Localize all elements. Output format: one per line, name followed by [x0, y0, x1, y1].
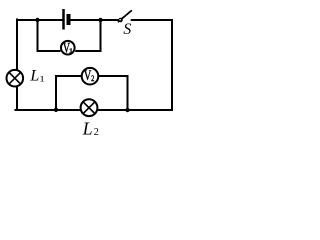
svg-text:2: 2: [94, 127, 99, 138]
svg-text:S: S: [123, 21, 131, 38]
svg-text:L: L: [82, 118, 93, 138]
svg-text:2: 2: [91, 74, 95, 83]
svg-text:L: L: [29, 67, 39, 84]
svg-text:1: 1: [69, 47, 73, 55]
svg-text:1: 1: [39, 75, 45, 84]
